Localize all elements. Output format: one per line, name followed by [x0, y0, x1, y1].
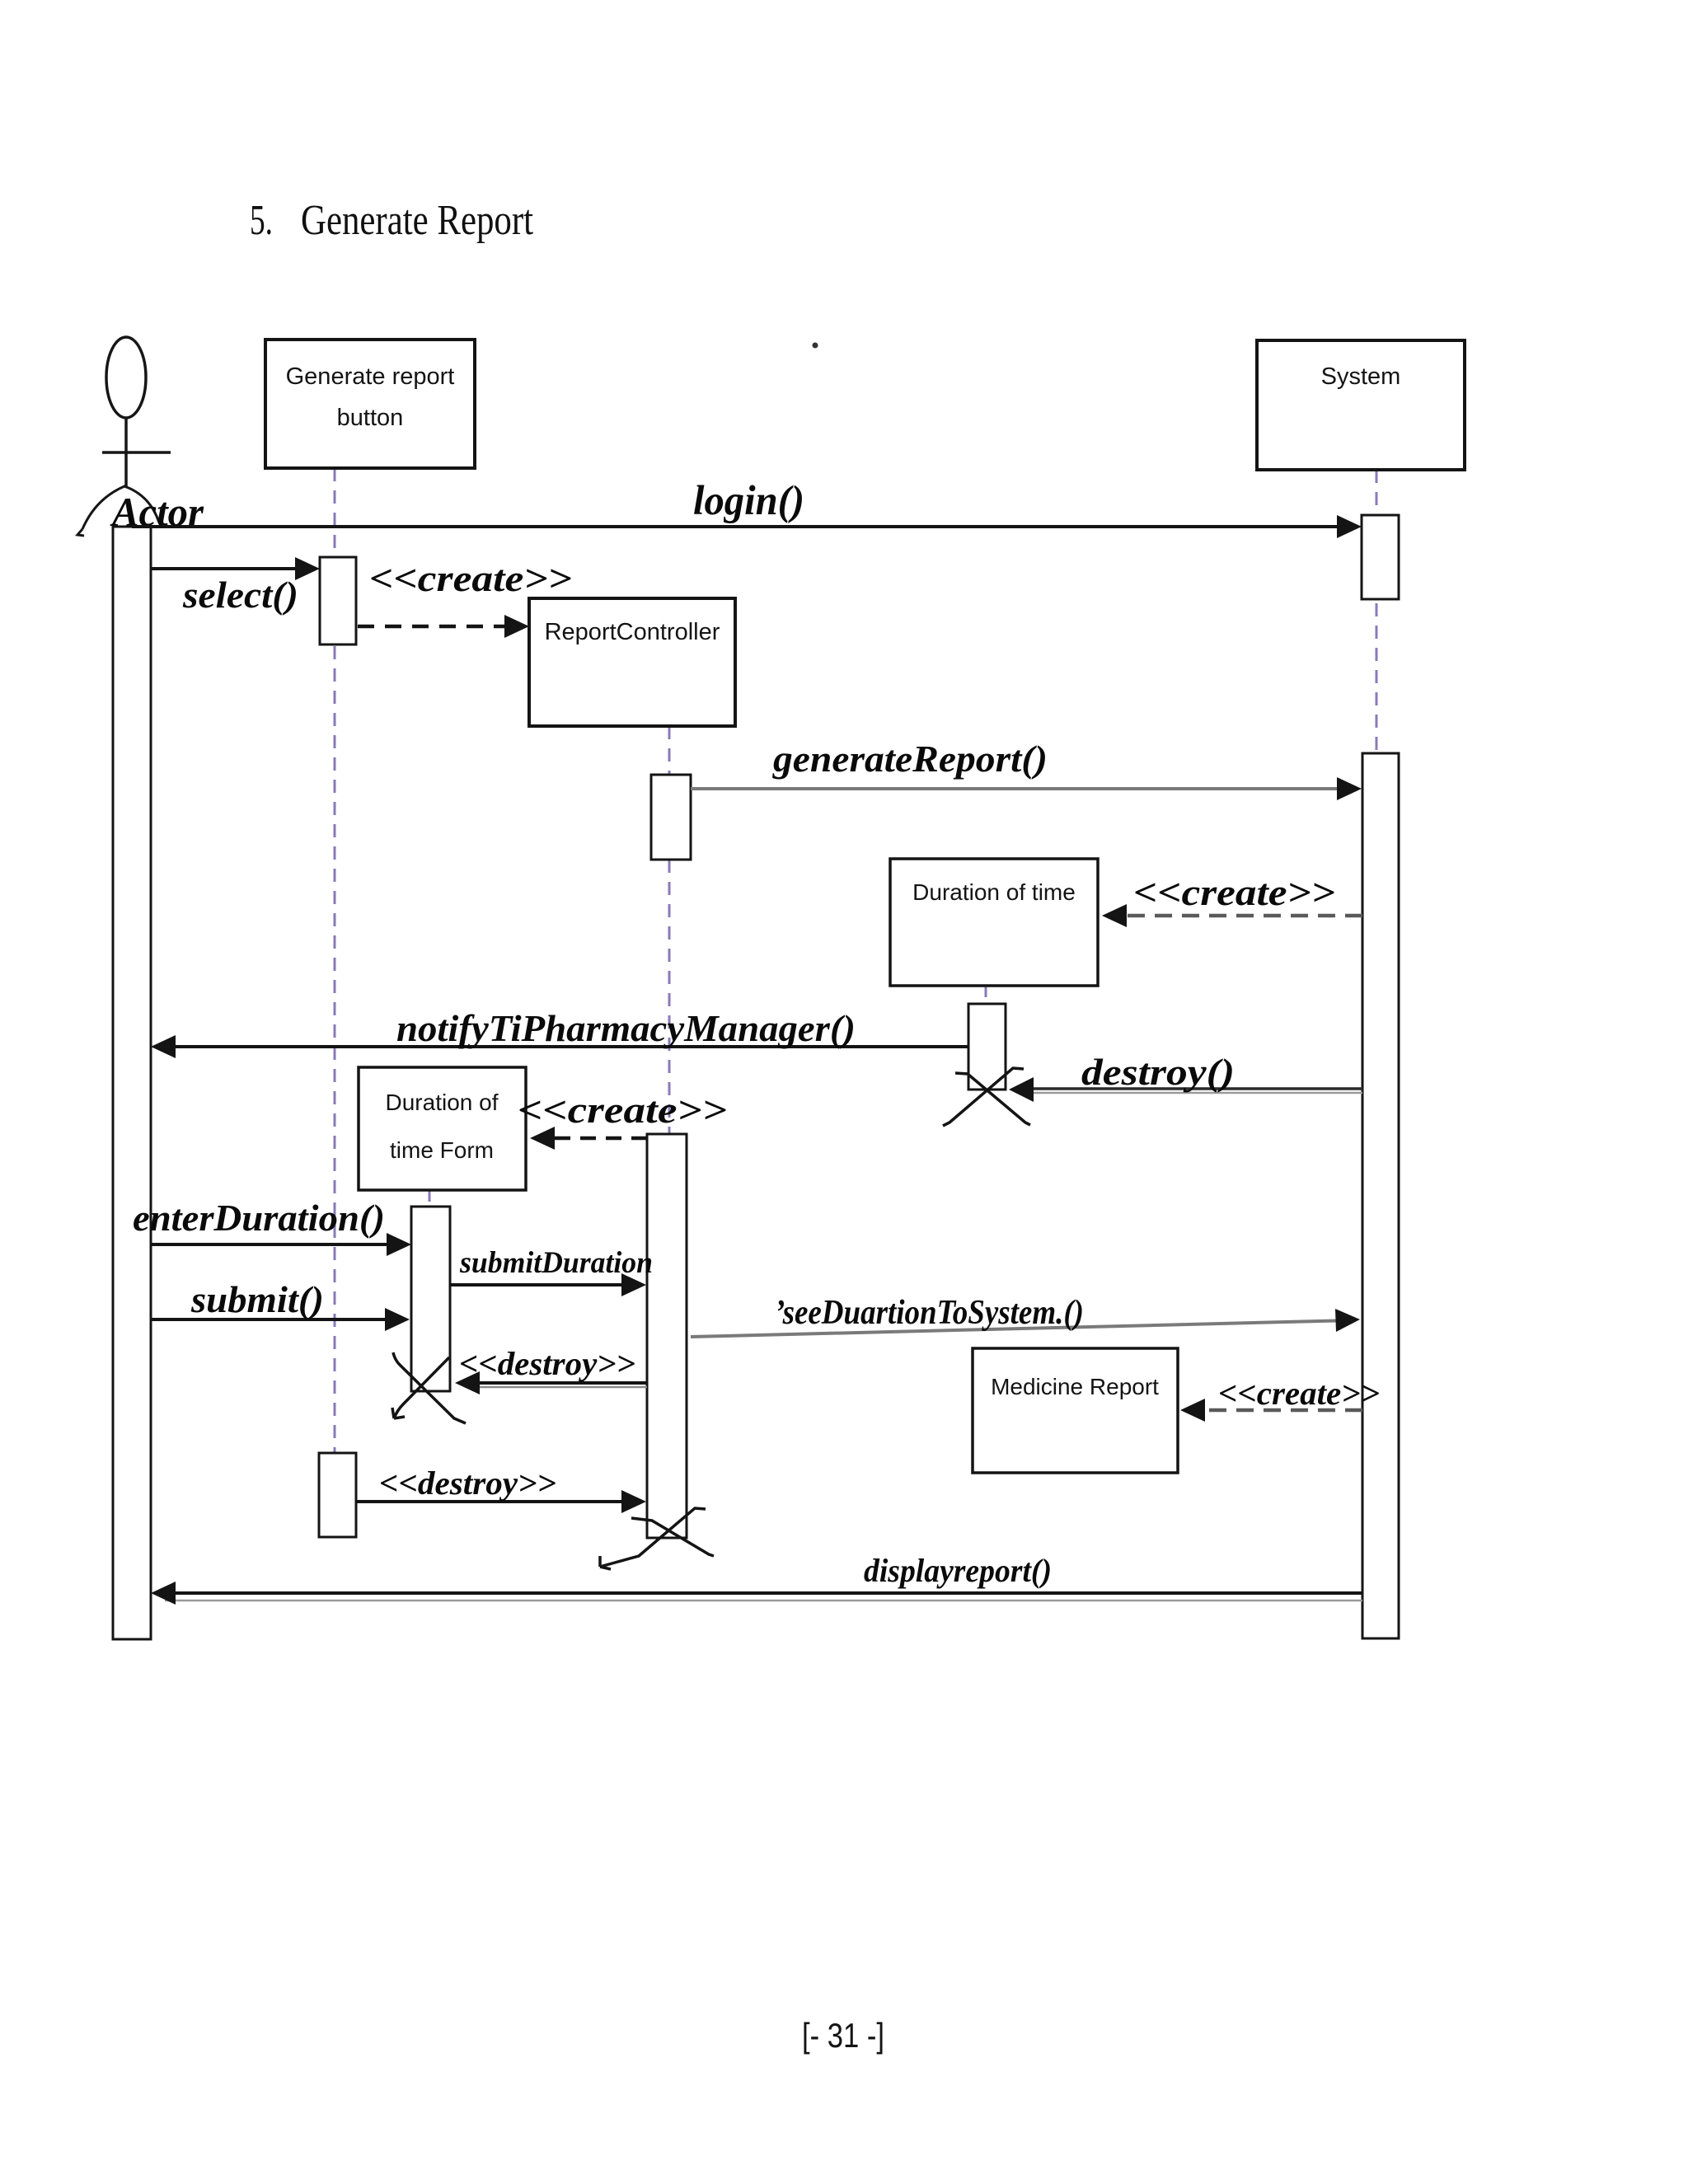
- Duration of time Form object box: [359, 1067, 526, 1190]
- svg-text:<<destroy>>: <<destroy>>: [459, 1345, 635, 1382]
- message <<create>> to Medicine Report (dashed): [1180, 1375, 1380, 1422]
- svg-text:<<create>>: <<create>>: [1133, 871, 1335, 913]
- svg-text:button: button: [337, 405, 404, 431]
- svg-text:notifyTiPharmacyManager(): notifyTiPharmacyManager(): [396, 1007, 856, 1049]
- svg-text:5.: 5.: [250, 197, 273, 244]
- System long activation bar: [1362, 753, 1399, 1638]
- message enterDuration(): [133, 1197, 411, 1256]
- svg-text:ReportController: ReportController: [545, 619, 720, 645]
- svg-text:System: System: [1321, 363, 1401, 390]
- X destroy mark on central activation with curved arrow: [600, 1508, 714, 1569]
- svg-text:<<destroy>>: <<destroy>>: [379, 1465, 556, 1502]
- svg-text:<<create>>: <<create>>: [518, 1089, 727, 1131]
- Medicine Report object box: [973, 1348, 1178, 1473]
- stray dot: [813, 343, 818, 349]
- svg-text:’seeDuartionToSystem.(): ’seeDuartionToSystem.(): [775, 1294, 1084, 1332]
- svg-text:<<create>>: <<create>>: [1218, 1375, 1380, 1412]
- System object box: [1257, 340, 1465, 470]
- central activation (controller second): [647, 1134, 687, 1538]
- message notifyTiPharmacyManager(): [151, 1007, 968, 1058]
- ReportController object box: [529, 598, 735, 726]
- message destroy(): [1009, 1051, 1362, 1102]
- Generate report button activation 2: [319, 1453, 356, 1537]
- X destroy mark on form activation: [392, 1352, 466, 1423]
- Duration of time object box: [890, 859, 1098, 986]
- lifeline of System (dashed): [1376, 470, 1378, 791]
- Duration of time Form activation: [411, 1207, 450, 1391]
- svg-text:Generate report: Generate report: [286, 363, 455, 390]
- svg-text:[- 31 -]: [- 31 -]: [802, 2016, 884, 2055]
- message submit(): [151, 1278, 410, 1331]
- svg-text:submit(): submit(): [190, 1278, 324, 1320]
- message generateReport(): [691, 738, 1362, 800]
- svg-text:select(): select(): [182, 574, 298, 616]
- svg-text:destroy(): destroy(): [1081, 1051, 1235, 1093]
- lifeline of Duration of time Form (dashed): [429, 1190, 431, 1210]
- message login(): [132, 478, 1362, 538]
- lifeline of ReportController (dashed): [668, 726, 671, 1154]
- X destroy mark on Duration of time: [943, 1068, 1030, 1126]
- System small activation (login): [1362, 515, 1399, 599]
- lifeline of Duration of time (dashed): [985, 986, 987, 1007]
- message displayreport(): [151, 1552, 1362, 1605]
- lifeline of Generate report button (dashed): [334, 468, 336, 1483]
- Generate report button object box: [265, 340, 475, 468]
- svg-text:<<create>>: <<create>>: [369, 557, 572, 599]
- svg-text:Duration of: Duration of: [386, 1090, 499, 1115]
- ReportController activation: [651, 775, 691, 860]
- svg-text:enterDuration(): enterDuration(): [133, 1197, 385, 1239]
- svg-text:Generate Report: Generate Report: [301, 197, 533, 244]
- actor figure: [77, 337, 171, 536]
- title: 5. Generate Report: [250, 197, 533, 244]
- svg-text:Medicine Report: Medicine Report: [991, 1374, 1159, 1399]
- Duration of time activation: [968, 1004, 1006, 1090]
- message select(): [151, 557, 320, 616]
- svg-text:generateReport(): generateReport(): [772, 738, 1048, 780]
- actor activation bar: [113, 527, 151, 1639]
- message <<destroy>> to form (black over grey): [455, 1345, 647, 1394]
- message 'seeDuartionToSystem.() (slanted): [691, 1294, 1360, 1337]
- svg-text:login(): login(): [693, 478, 804, 524]
- message <<destroy>> to central activation: [357, 1465, 646, 1513]
- svg-text:Duration of time: Duration of time: [912, 879, 1076, 905]
- message <<create>> to Duration of time (dashed): [1102, 871, 1362, 927]
- message submitDuration: [450, 1246, 653, 1296]
- message <<create>> to Duration of time Form (dashed): [518, 1089, 727, 1150]
- svg-text:displayreport(): displayreport(): [864, 1552, 1052, 1589]
- svg-text:submitDuration: submitDuration: [459, 1246, 653, 1280]
- Generate report button activation 1: [320, 557, 356, 644]
- svg-text:time Form: time Form: [390, 1137, 494, 1163]
- message <<create>> to ReportController (dashed): [358, 557, 572, 638]
